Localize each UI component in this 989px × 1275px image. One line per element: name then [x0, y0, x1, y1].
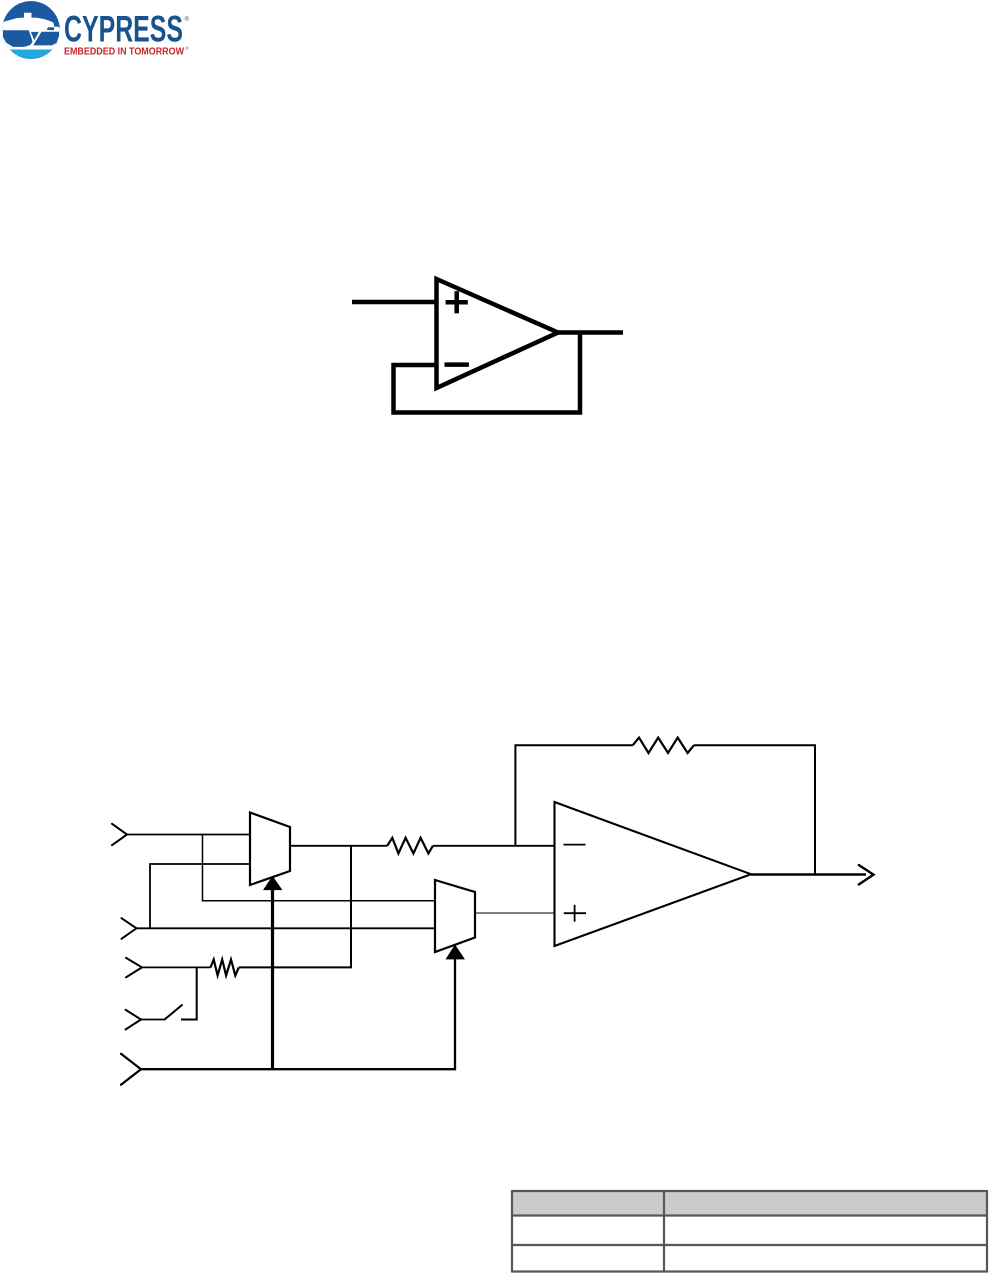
wire: input 2 branch to mux1 input B — [150, 864, 250, 928]
mux1 select arrowhead — [263, 876, 283, 890]
wire: mux1 output to opamp inverting input with resistor R2 gap — [290, 845, 555, 847]
svg-text:CYPRESS: CYPRESS — [64, 9, 183, 50]
wire: feedback loop — [394, 333, 581, 413]
table at bottom — [512, 1190, 987, 1273]
table grid — [512, 1191, 987, 1272]
op-amp U4 triangle — [555, 802, 752, 946]
wire: input 3 to resistor R3 — [142, 966, 211, 968]
op-amp U1 plus symbol — [446, 291, 468, 313]
op-amp U1 triangle — [437, 279, 559, 388]
wire: input 1 to mux1 — [127, 834, 250, 836]
wire: output — [751, 873, 866, 875]
mux U2 (upper) trapezoid — [250, 813, 290, 886]
wire: input 2 to mux2 input B — [137, 927, 436, 929]
wire: mux2 output to opamp non-inverting input — [475, 912, 555, 914]
mux U3 (lower) trapezoid — [435, 880, 475, 952]
resistor R1 (feedback) — [633, 738, 694, 753]
node: output arrowhead — [859, 865, 874, 885]
op-amp U4 minus symbol — [564, 844, 586, 846]
op-amp U4 plus symbol — [564, 905, 586, 922]
Figure 1: voltage follower — [352, 279, 623, 413]
switch SW1 contact and wire to R3 node — [181, 967, 197, 1019]
node: input terminal 2 chevron — [122, 918, 137, 939]
svg-text:®: ® — [186, 45, 190, 51]
Cypress logo wordmark — [64, 9, 190, 58]
Cypress logo mark (blue circle with tree) — [1, 1, 61, 59]
Figure 2: opamp input multiplexer schematic — [112, 738, 874, 1085]
wire: non-inverting input — [352, 300, 437, 305]
resistor R3 — [211, 960, 239, 976]
table header row fill — [512, 1191, 987, 1216]
wire: output — [556, 330, 623, 335]
node: input terminal 4 chevron — [126, 1010, 142, 1030]
mux2 select arrowhead — [446, 945, 466, 960]
switch SW1 blade — [165, 1005, 182, 1020]
wire: R3 to mux1 output node — [239, 846, 351, 967]
wire: feedback left leg and top — [515, 745, 815, 874]
op-amp U1 minus symbol — [445, 362, 469, 367]
node: input terminal 5 chevron — [121, 1054, 141, 1085]
node: input terminal 1 chevron — [112, 824, 127, 845]
wire: input 1 branch to mux2 input A — [203, 835, 436, 901]
svg-text:EMBEDDED IN TOMORROW: EMBEDDED IN TOMORROW — [64, 46, 185, 57]
node: input terminal 3 chevron — [126, 958, 142, 978]
wire: input 4 to switch — [141, 1019, 165, 1021]
wire: input 5 select bus — [141, 957, 455, 1069]
svg-text:®: ® — [185, 16, 190, 23]
wire: mux1 select stub — [271, 888, 274, 1069]
resistor R2 — [387, 838, 433, 854]
